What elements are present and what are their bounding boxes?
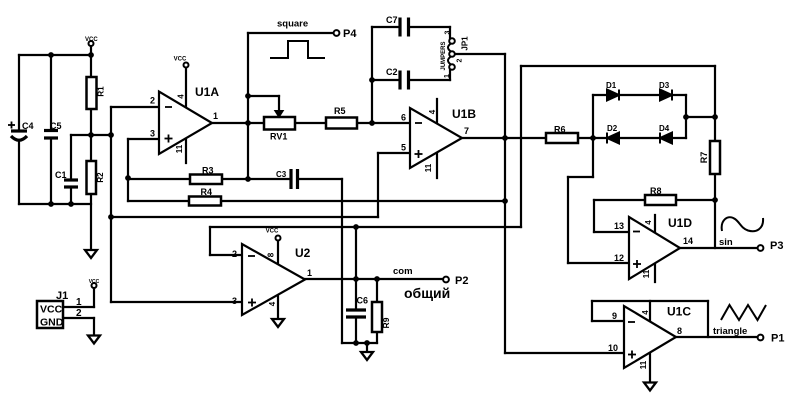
svg-text:11: 11 (175, 144, 184, 153)
svg-text:3: 3 (150, 129, 155, 139)
svg-text:RV1: RV1 (270, 132, 287, 142)
svg-text:JP1: JP1 (461, 36, 470, 51)
svg-text:C2: C2 (386, 67, 398, 77)
svg-text:6: 6 (401, 113, 406, 123)
svg-text:J1: J1 (56, 290, 68, 302)
svg-text:R2: R2 (96, 172, 105, 183)
svg-text:9: 9 (612, 311, 617, 321)
svg-text:4: 4 (177, 94, 186, 99)
svg-text:D1: D1 (606, 81, 617, 90)
svg-text:1: 1 (213, 111, 218, 121)
svg-text:U1B: U1B (452, 107, 476, 121)
svg-text:общий: общий (404, 285, 450, 301)
svg-text:11: 11 (639, 360, 648, 369)
svg-text:C3: C3 (276, 170, 287, 179)
svg-text:VCC: VCC (40, 304, 63, 316)
svg-text:14: 14 (683, 236, 693, 246)
svg-text:R3: R3 (202, 166, 214, 176)
svg-text:2: 2 (150, 96, 155, 106)
svg-text:2: 2 (232, 249, 237, 259)
svg-text:R9: R9 (381, 317, 391, 328)
svg-text:R8: R8 (650, 186, 662, 196)
svg-text:D4: D4 (659, 124, 670, 133)
svg-text:3: 3 (444, 30, 451, 34)
svg-text:P1: P1 (771, 333, 784, 345)
svg-text:4: 4 (268, 301, 277, 306)
svg-text:P2: P2 (455, 275, 468, 287)
svg-text:VCC: VCC (85, 37, 98, 43)
svg-text:C6: C6 (357, 296, 369, 306)
svg-text:GND: GND (40, 317, 64, 329)
svg-text:D2: D2 (607, 124, 618, 133)
svg-text:C1: C1 (55, 170, 67, 180)
svg-text:D3: D3 (659, 81, 670, 90)
svg-text:U1D: U1D (668, 216, 692, 230)
svg-text:2: 2 (76, 308, 82, 319)
svg-text:JUMPERS: JUMPERS (441, 41, 447, 70)
svg-text:R6: R6 (554, 125, 566, 135)
svg-text:R7: R7 (699, 152, 709, 164)
svg-text:13: 13 (614, 221, 624, 231)
svg-text:P4: P4 (343, 28, 357, 40)
svg-text:VCC: VCC (266, 229, 279, 235)
svg-text:4: 4 (644, 220, 653, 225)
svg-text:1: 1 (444, 74, 451, 78)
svg-text:VCC: VCC (174, 57, 187, 63)
svg-text:R1: R1 (97, 86, 106, 97)
svg-text:1: 1 (76, 297, 82, 308)
svg-text:8: 8 (677, 326, 682, 336)
svg-text:VCC: VCC (89, 279, 100, 285)
svg-text:10: 10 (608, 343, 618, 353)
svg-text:U1A: U1A (195, 85, 219, 99)
svg-text:U1C: U1C (667, 305, 691, 319)
svg-text:4: 4 (428, 109, 437, 114)
svg-text:4: 4 (641, 310, 650, 315)
svg-text:11: 11 (642, 269, 651, 278)
svg-text:11: 11 (424, 163, 433, 172)
svg-text:sin: sin (719, 237, 733, 248)
svg-text:C5: C5 (50, 121, 62, 131)
svg-text:7: 7 (464, 126, 469, 136)
svg-text:C4: C4 (22, 121, 34, 131)
svg-text:R4: R4 (201, 187, 213, 197)
svg-text:P3: P3 (770, 240, 783, 252)
svg-text:U2: U2 (295, 246, 311, 260)
svg-text:3: 3 (232, 296, 237, 306)
svg-text:C7: C7 (386, 15, 398, 25)
svg-text:triangle: triangle (713, 326, 747, 337)
svg-text:5: 5 (401, 143, 406, 153)
svg-text:12: 12 (614, 253, 624, 263)
svg-text:com: com (393, 266, 413, 277)
svg-text:1: 1 (307, 268, 312, 278)
svg-text:square: square (277, 19, 308, 30)
svg-text:R5: R5 (334, 106, 346, 116)
svg-text:2: 2 (456, 58, 463, 62)
svg-text:8: 8 (267, 252, 276, 257)
